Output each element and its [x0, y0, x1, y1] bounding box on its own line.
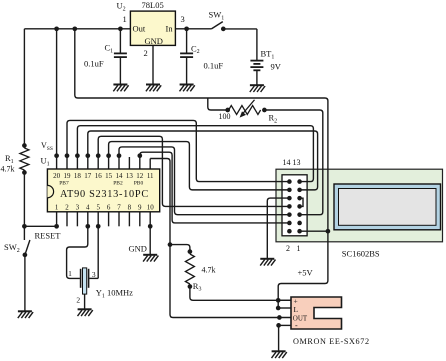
svg-text:PB7: PB7 [59, 181, 69, 187]
svg-text:GND: GND [129, 244, 147, 254]
svg-text:6: 6 [107, 203, 111, 211]
svg-text:19: 19 [64, 172, 72, 180]
svg-text:17: 17 [84, 172, 92, 180]
svg-text:2: 2 [286, 244, 290, 253]
svg-text:12: 12 [136, 172, 144, 180]
svg-text:2: 2 [65, 203, 69, 211]
svg-text:GND: GND [145, 36, 163, 46]
svg-text:1: 1 [297, 244, 301, 253]
svg-text:0.1uF: 0.1uF [84, 59, 104, 69]
svg-text:14 13: 14 13 [283, 158, 301, 167]
svg-text:PB2: PB2 [113, 181, 123, 187]
svg-text:1: 1 [123, 14, 127, 24]
svg-text:1: 1 [68, 269, 72, 278]
svg-text:SC1602BS: SC1602BS [342, 249, 380, 259]
svg-text:20: 20 [53, 172, 61, 180]
svg-text:AT90 S2313-10PC: AT90 S2313-10PC [60, 189, 149, 200]
svg-text:15: 15 [105, 172, 113, 180]
svg-text:-: - [295, 321, 298, 330]
svg-text:16: 16 [95, 172, 103, 180]
svg-text:+5V: +5V [298, 268, 314, 278]
svg-text:OMRON EE-SX672: OMRON EE-SX672 [293, 337, 370, 346]
svg-text:11: 11 [147, 172, 154, 180]
svg-text:4.7k: 4.7k [202, 266, 216, 275]
svg-text:3: 3 [92, 270, 96, 279]
svg-text:RESET: RESET [35, 231, 62, 241]
svg-text:3: 3 [76, 203, 80, 211]
svg-text:9: 9 [138, 203, 142, 211]
svg-text:18: 18 [74, 172, 82, 180]
svg-text:2: 2 [76, 296, 80, 305]
svg-text:1: 1 [55, 203, 59, 211]
svg-text:10: 10 [147, 203, 155, 211]
svg-text:100: 100 [219, 112, 231, 121]
svg-text:78L05: 78L05 [142, 0, 164, 10]
svg-text:4: 4 [86, 203, 90, 211]
svg-text:8: 8 [128, 203, 132, 211]
svg-text:3: 3 [181, 14, 185, 24]
svg-text:5: 5 [96, 203, 100, 211]
svg-text:Out: Out [133, 24, 146, 34]
svg-text:2: 2 [144, 48, 148, 58]
svg-text:0.1uF: 0.1uF [204, 61, 224, 71]
svg-text:14: 14 [116, 172, 124, 180]
svg-text:9V: 9V [271, 62, 282, 72]
svg-text:7: 7 [117, 203, 121, 211]
svg-text:L: L [294, 305, 299, 314]
svg-text:13: 13 [126, 172, 134, 180]
svg-text:In: In [166, 24, 174, 34]
svg-text:4.7k: 4.7k [1, 165, 15, 174]
svg-text:PB0: PB0 [134, 181, 144, 187]
